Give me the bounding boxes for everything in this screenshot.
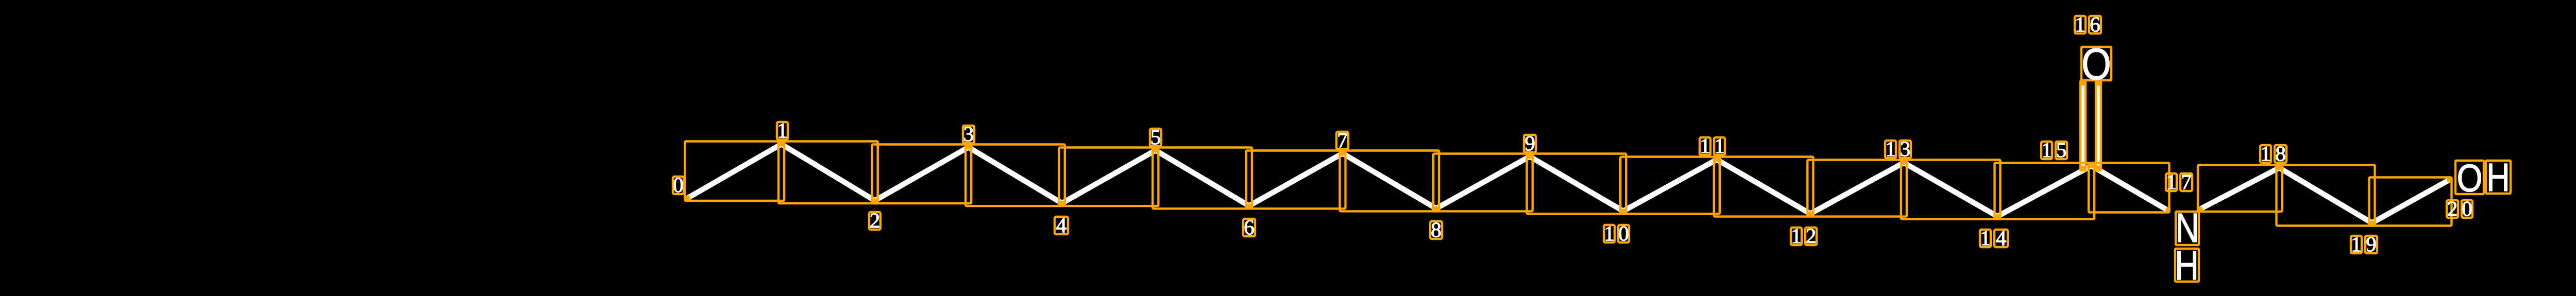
bond 2-3 box	[872, 145, 972, 204]
bond 4-5	[1062, 150, 1156, 203]
svg-text:4: 4	[1056, 213, 1067, 237]
label 7	[1336, 132, 1348, 149]
label 3	[963, 126, 974, 143]
bond 3-4	[969, 147, 1062, 203]
bond 1-2 box	[778, 142, 878, 204]
svg-text:5: 5	[1150, 125, 1161, 149]
svg-text:4: 4	[1996, 226, 2007, 250]
bond 3-4 box	[965, 145, 1065, 206]
svg-text:O: O	[2457, 156, 2483, 200]
label 6	[1243, 219, 1255, 236]
bond 19-20	[2372, 180, 2449, 223]
dbl line b bottom dot	[2096, 165, 2101, 170]
bond 13-14	[1904, 163, 1997, 216]
bond 17-18 end dot	[2198, 206, 2203, 212]
atom N17 box	[2176, 212, 2199, 245]
label 14	[1980, 230, 1991, 247]
label 10	[1604, 225, 1615, 242]
svg-text:1: 1	[1714, 134, 1725, 158]
bond 15-16 line b box	[2096, 81, 2101, 170]
atom 4 dot	[1060, 201, 1065, 206]
dbl line a top dot	[2080, 81, 2086, 86]
svg-text:3: 3	[963, 122, 974, 146]
svg-text:H: H	[2175, 243, 2199, 289]
label 15	[2041, 142, 2052, 159]
svg-text:2: 2	[2447, 197, 2458, 220]
bond 0-1 box	[685, 142, 785, 201]
bond 9-10	[1530, 156, 1623, 211]
bond 4-5 box	[1059, 148, 1159, 206]
bond 11-12	[1717, 160, 1810, 214]
label 9	[1524, 135, 1536, 152]
svg-text:1: 1	[2260, 142, 2271, 165]
atom 18 dot	[2277, 165, 2282, 170]
atom 8 dot	[1434, 206, 1439, 211]
svg-text:O: O	[2081, 40, 2111, 90]
atom O16 box	[2081, 47, 2111, 80]
svg-text:1: 1	[1980, 226, 1991, 250]
atom 11 dot	[1715, 157, 1720, 162]
svg-text:1: 1	[2166, 170, 2177, 194]
bond 15-17 end dot	[2165, 207, 2171, 213]
svg-text:9: 9	[1524, 131, 1535, 155]
svg-text:1: 1	[777, 118, 788, 142]
bond 6-7	[1249, 153, 1343, 206]
svg-text:1: 1	[2041, 138, 2052, 162]
svg-text:1: 1	[1604, 221, 1615, 245]
bond 14-15	[1997, 166, 2092, 216]
label 8	[1430, 221, 1442, 239]
bond 15-16 line b	[2096, 83, 2102, 168]
bond 8-9	[1436, 156, 1530, 208]
bond 0-1	[688, 144, 782, 198]
bond 10-11	[1623, 160, 1717, 211]
label 13	[1885, 141, 1896, 158]
bond 7-8	[1343, 153, 1436, 208]
bond 11-12 box	[1714, 157, 1814, 217]
bond 6-7 box	[1246, 151, 1346, 209]
label 12	[1791, 228, 1802, 245]
bond 15-16 line a	[2080, 83, 2086, 168]
svg-text:7: 7	[1337, 128, 1348, 152]
atom 1 dot	[779, 142, 784, 147]
atom 5 dot	[1153, 148, 1158, 153]
atom 7 dot	[1340, 151, 1345, 156]
atom 12 dot	[1808, 211, 1813, 216]
svg-text:8: 8	[1431, 218, 1442, 241]
svg-text:9: 9	[2366, 232, 2377, 256]
bond 12-13 box	[1807, 160, 1907, 217]
bond 19-20 end dot	[2447, 178, 2452, 183]
atom 15 dot	[2089, 163, 2094, 168]
svg-text:1: 1	[1791, 224, 1802, 248]
bond 8-9 box	[1433, 154, 1533, 212]
bond 2-3	[875, 147, 969, 201]
svg-text:1: 1	[1885, 137, 1896, 161]
svg-text:1: 1	[2075, 12, 2086, 36]
atom 13 dot	[1902, 160, 1907, 165]
bond 15-17 box	[2089, 163, 2170, 213]
bond 10-11 box	[1620, 157, 1720, 214]
atom H on O20 box	[2486, 161, 2511, 194]
bond 5-6	[1156, 150, 1249, 206]
bond 1-2	[782, 144, 875, 201]
svg-text:3: 3	[1900, 137, 1911, 161]
label 0	[673, 177, 684, 194]
bond 15-16 line a box	[2080, 81, 2086, 170]
label 17	[2166, 173, 2177, 191]
label 19	[2351, 236, 2362, 253]
bond 9-10 box	[1527, 154, 1626, 214]
atom 6 dot	[1247, 203, 1252, 208]
svg-text:2: 2	[1806, 224, 1817, 248]
bond 5-6 box	[1153, 148, 1252, 209]
svg-text:0: 0	[673, 173, 684, 197]
atom 14 dot	[1995, 214, 2000, 219]
atom 0 dot	[685, 196, 690, 201]
svg-text:5: 5	[2056, 138, 2067, 162]
atom 10 dot	[1621, 208, 1626, 214]
bond 12-13	[1810, 163, 1904, 214]
label 18	[2260, 145, 2271, 163]
label 16	[2075, 16, 2086, 33]
bond 14-15 box	[1995, 163, 2095, 219]
svg-text:2: 2	[870, 208, 880, 232]
atom 19 dot	[2369, 220, 2375, 225]
atom H on N17 box	[2175, 249, 2199, 282]
label 5	[1150, 129, 1161, 146]
label 11	[1700, 137, 1710, 155]
bond 19-20 box	[2369, 178, 2452, 226]
svg-text:H: H	[2486, 155, 2510, 199]
label 4	[1055, 217, 1068, 234]
atom 9 dot	[1527, 154, 1532, 159]
svg-text:1: 1	[1700, 134, 1710, 158]
bond 13-14 box	[1901, 160, 2001, 219]
bond 17-18	[2201, 168, 2280, 209]
svg-text:7: 7	[2181, 170, 2192, 194]
dbl line a bottom dot	[2080, 165, 2086, 170]
bond 18-19 box	[2277, 165, 2375, 226]
svg-text:6: 6	[1244, 215, 1255, 239]
atom 2 dot	[872, 198, 877, 203]
bond 15-17	[2092, 166, 2167, 210]
label 1	[777, 122, 788, 140]
svg-text:0: 0	[2462, 197, 2472, 220]
atom O20 box	[2455, 161, 2484, 194]
svg-text:1: 1	[2351, 232, 2362, 256]
bond 18-19	[2279, 168, 2372, 223]
atom 3 dot	[966, 145, 971, 150]
svg-text:0: 0	[1618, 221, 1629, 245]
svg-text:6: 6	[2090, 12, 2100, 36]
dbl line b top dot	[2096, 81, 2101, 86]
label 2	[869, 212, 880, 230]
label 20	[2447, 200, 2458, 218]
svg-text:8: 8	[2275, 142, 2286, 165]
bond 7-8 box	[1340, 151, 1439, 212]
bond 17-18 box	[2198, 165, 2282, 212]
